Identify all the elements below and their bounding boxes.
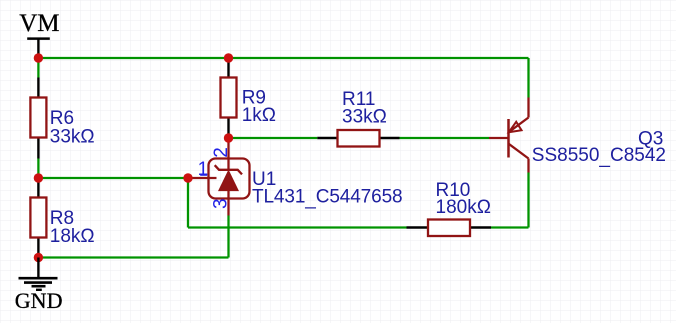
body	[209, 159, 250, 199]
svg-text:18kΩ: 18kΩ	[50, 226, 95, 247]
pin 2	[227, 138, 229, 170]
wire to R10 left	[188, 226, 407, 228]
junction node U1 ref	[183, 173, 192, 182]
wire R11 right to Q3 base	[400, 137, 490, 139]
resistor R10	[407, 180, 492, 236]
junction node GND	[34, 253, 43, 262]
wire rail to Q3 emitter	[527, 58, 529, 98]
svg-text:180kΩ: 180kΩ	[436, 197, 491, 218]
zener cathode	[215, 165, 242, 174]
transistor Q3 (PNP SS8550)	[489, 98, 666, 173]
emitter arrow	[509, 122, 522, 132]
svg-text:3: 3	[211, 198, 232, 209]
svg-text:GND: GND	[15, 288, 63, 313]
svg-text:2: 2	[211, 147, 232, 158]
pin 1	[188, 177, 217, 179]
resistor R11	[317, 89, 399, 147]
wire R6 bottom to node	[37, 159, 39, 179]
svg-text:1kΩ: 1kΩ	[242, 105, 276, 126]
wire R10 right to Q3 collector	[491, 226, 529, 228]
anode triangle	[219, 171, 238, 191]
resistor R9	[221, 58, 276, 138]
wire R9 bottom to R11	[229, 137, 318, 139]
emitter diagonal	[509, 118, 529, 133]
resistor R8	[30, 178, 94, 258]
base pin	[489, 137, 509, 139]
op-amp U1 (TL431 shunt reference)	[188, 138, 402, 216]
emitter pin	[527, 98, 529, 118]
wire top rail VM	[38, 57, 528, 59]
wire VM dot to R6	[37, 58, 39, 78]
collector pin	[527, 159, 529, 173]
pin 3	[227, 190, 229, 216]
collector diagonal	[509, 144, 529, 159]
svg-text:VM: VM	[19, 10, 59, 37]
power flag VM	[19, 10, 59, 58]
ground	[15, 258, 63, 314]
junction node R6/R8 divider	[34, 173, 43, 182]
junction node R9 top	[224, 53, 233, 62]
svg-text:33kΩ: 33kΩ	[342, 106, 387, 127]
svg-text:TL431_C5447658: TL431_C5447658	[252, 186, 402, 209]
svg-text:33kΩ: 33kΩ	[50, 127, 95, 148]
junction node VM	[34, 53, 43, 62]
resistor R6	[30, 78, 94, 159]
svg-text:SS8550_C8542: SS8550_C8542	[532, 145, 666, 168]
wire ref node down	[187, 178, 189, 228]
base bar	[507, 119, 510, 158]
svg-text:1: 1	[198, 159, 209, 180]
wire bottom to GND node	[38, 256, 228, 258]
wire node to U1 ref	[38, 177, 188, 179]
junction node R9 bottom / U1 pin2	[224, 133, 233, 142]
wire U1 pin3 down	[227, 216, 229, 258]
